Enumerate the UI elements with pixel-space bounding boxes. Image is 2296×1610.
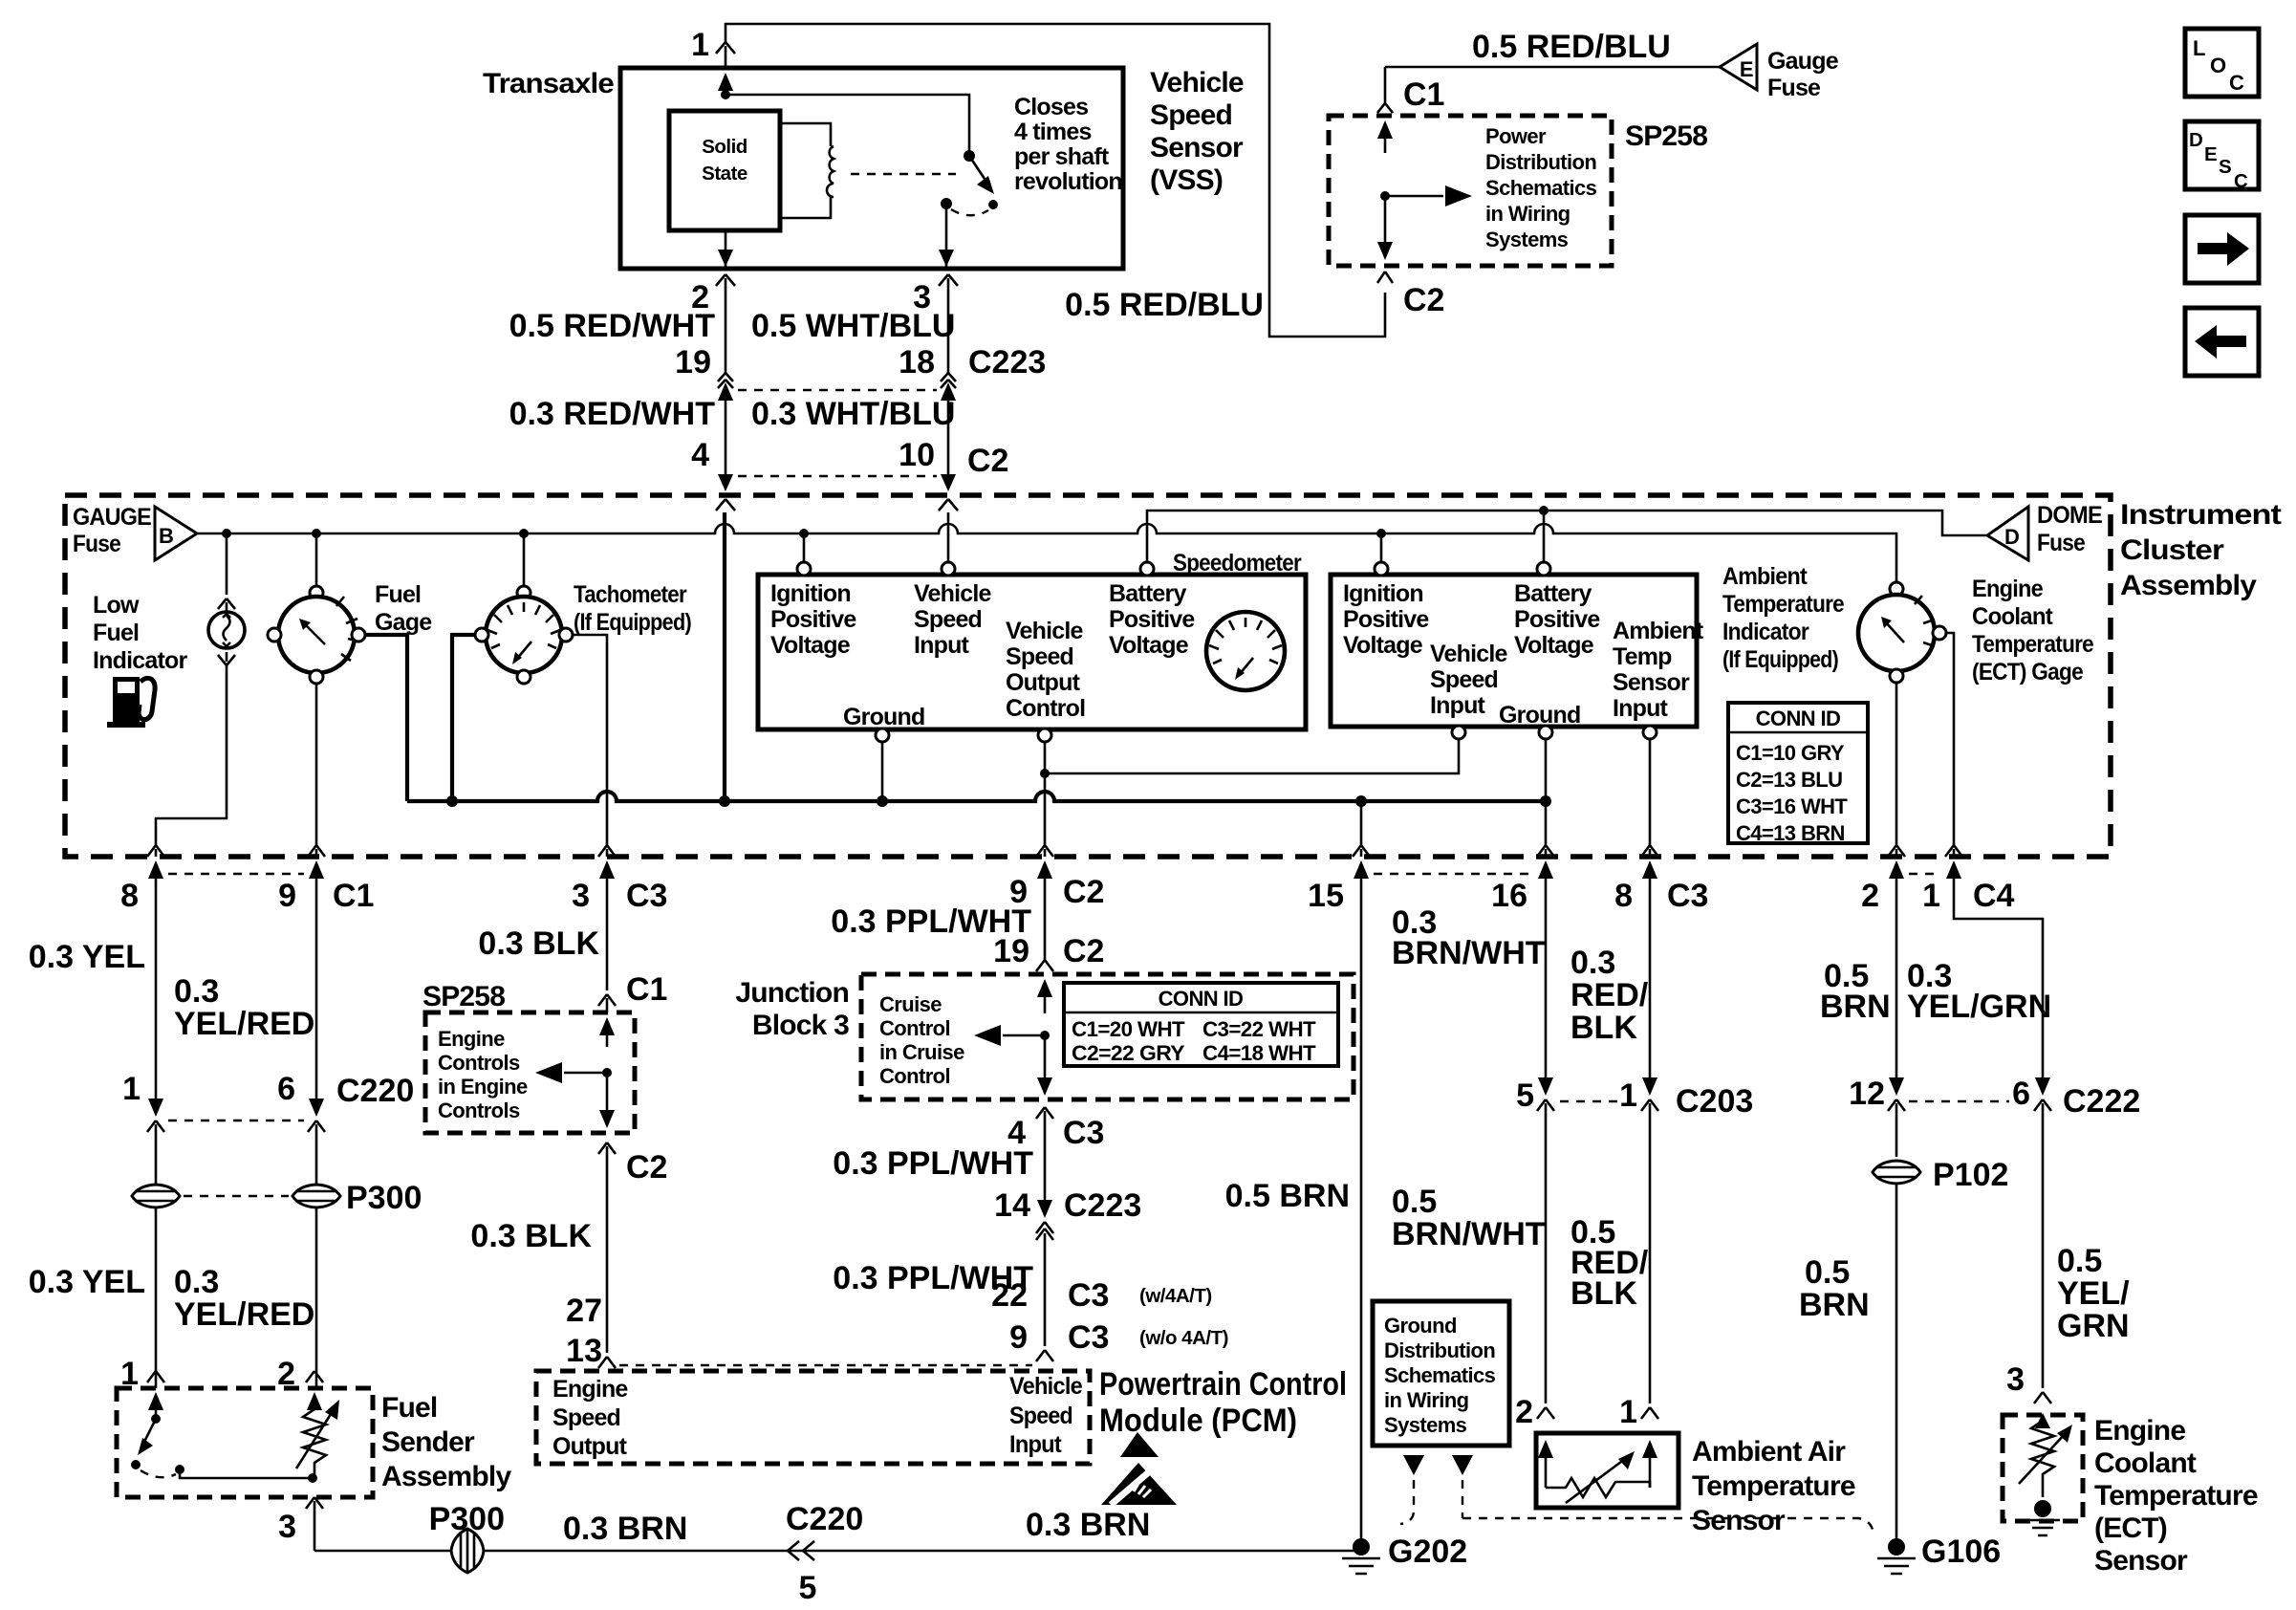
svg-text:1: 1 [1619, 1394, 1637, 1430]
svg-text:Fuse: Fuse [1767, 75, 1821, 101]
wire speedo ground [881, 742, 884, 799]
svg-text:BRN/WHT: BRN/WHT [1392, 935, 1546, 971]
svg-text:Distribution: Distribution [1485, 150, 1596, 174]
svg-text:Systems: Systems [1485, 228, 1569, 251]
svg-text:BRN: BRN [1820, 989, 1891, 1025]
svg-text:YEL/GRN: YEL/GRN [1907, 989, 2051, 1025]
dashed pair links below cluster [168, 873, 304, 875]
svg-text:0.3 YEL: 0.3 YEL [29, 939, 145, 975]
fuel gage left terminal [268, 628, 281, 642]
ECT gage [1858, 595, 1935, 671]
svg-text:Input: Input [1009, 1431, 1062, 1458]
wire jb3 down arrow [1044, 1035, 1047, 1080]
button arrow left [2185, 308, 2259, 376]
wire tach right to pin3 C3 [573, 635, 607, 845]
ground bus [407, 792, 1546, 801]
svg-text:D: D [2004, 525, 2019, 549]
svg-text:C1=20 WHT: C1=20 WHT [1072, 1017, 1185, 1041]
dome feed wire [1147, 511, 1987, 562]
wire up arrow inside [606, 1031, 609, 1047]
wire 0.3 BRN bottom run [314, 1550, 1361, 1553]
svg-text:GAUGE: GAUGE [73, 504, 151, 531]
connector chevrons below cluster edge [716, 499, 735, 511]
svg-text:1: 1 [122, 1071, 141, 1107]
svg-text:Indicator: Indicator [1722, 619, 1809, 645]
svg-text:3: 3 [278, 1509, 296, 1545]
svg-text:Fuse: Fuse [73, 531, 121, 557]
wire 0.3 WHT/BLU (C223 to C2) [947, 398, 950, 476]
svg-text:Sensor: Sensor [1692, 1505, 1786, 1536]
svg-text:State: State [702, 163, 747, 185]
wire pin3 inside box [945, 204, 948, 269]
svg-text:Indicator: Indicator [93, 647, 187, 674]
fuel gage top terminal [310, 586, 323, 599]
svg-text:C2: C2 [626, 1149, 667, 1186]
svg-text:Temperature: Temperature [1722, 591, 1845, 618]
svg-text:1: 1 [1619, 1077, 1637, 1114]
svg-text:(VSS): (VSS) [1150, 164, 1223, 196]
svg-text:C3: C3 [1063, 1115, 1104, 1151]
fuel sender entry chevrons [147, 1371, 323, 1382]
svg-text:GRN: GRN [2057, 1308, 2130, 1344]
svg-text:BLK: BLK [1570, 1275, 1637, 1312]
svg-text:G202: G202 [1388, 1534, 1467, 1570]
wire down arrow inside [606, 1073, 609, 1114]
svg-text:1: 1 [1922, 878, 1940, 914]
svg-text:Assembly: Assembly [2120, 570, 2257, 601]
svg-text:YEL/RED: YEL/RED [174, 1006, 314, 1042]
speedometer box [758, 575, 1306, 729]
svg-text:Systems: Systems [1384, 1413, 1467, 1437]
svg-text:Input: Input [1430, 692, 1486, 719]
svg-text:Battery: Battery [1109, 580, 1186, 607]
svg-text:in Cruise: in Cruise [879, 1040, 964, 1064]
wire speedo ign feed [803, 533, 806, 562]
svg-text:C4=18 WHT: C4=18 WHT [1202, 1041, 1316, 1065]
node box2 ground bus [1540, 795, 1551, 807]
svg-text:Vehicle: Vehicle [1430, 641, 1507, 667]
node speedo ign feed [799, 529, 809, 538]
svg-text:19: 19 [675, 344, 711, 381]
wire jb3 up arrow [1044, 994, 1047, 1013]
grommet P300 bottom [451, 1529, 484, 1573]
svg-text:Speed: Speed [1150, 99, 1232, 131]
wire 0.3 RED/WHT (C223 to C2) [725, 398, 727, 476]
conn id table (cluster) [1728, 703, 1868, 843]
svg-text:Vehicle: Vehicle [1150, 67, 1244, 98]
svg-text:C3=16 WHT: C3=16 WHT [1736, 794, 1848, 818]
svg-text:Speed: Speed [552, 1404, 620, 1431]
node SP258 [1380, 191, 1390, 201]
wire wht/blu into cluster to speedo VSI [947, 512, 950, 562]
ground G106 [1888, 1538, 1905, 1556]
svg-text:Output: Output [1006, 669, 1081, 696]
svg-text:(If Equipped): (If Equipped) [1722, 646, 1838, 673]
AAT resistor [1546, 1478, 1650, 1497]
svg-text:3: 3 [572, 878, 590, 914]
svg-text:Block 3: Block 3 [752, 1010, 849, 1041]
wire switch to resistor [180, 1469, 313, 1478]
node vso to box2 link [1040, 769, 1050, 778]
fuse symbol D (dome fuse) [1987, 507, 2028, 560]
node tach feed [519, 529, 529, 538]
svg-text:YEL/RED: YEL/RED [174, 1296, 314, 1333]
ambient air temperature sensor box [1536, 1433, 1679, 1508]
ECT gage right terminal [1933, 626, 1946, 640]
solid state box [669, 111, 780, 230]
wire gauge bus [197, 524, 1896, 582]
svg-text:Solid: Solid [702, 136, 747, 158]
arrow to cruise control [1003, 1034, 1045, 1037]
svg-text:revolution: revolution [1014, 168, 1122, 195]
svg-text:P300: P300 [429, 1501, 505, 1537]
svg-text:C4: C4 [1973, 878, 2015, 914]
svg-text:Voltage: Voltage [770, 632, 851, 659]
svg-text:in Engine: in Engine [438, 1075, 528, 1099]
svg-text:Distribution: Distribution [1384, 1338, 1495, 1362]
svg-text:C3: C3 [626, 878, 667, 914]
svg-text:0.5 RED/BLU: 0.5 RED/BLU [1472, 29, 1671, 65]
svg-text:Sensor: Sensor [2094, 1545, 2188, 1577]
svg-text:Power: Power [1485, 124, 1547, 148]
connector into PCM vsi [1036, 1350, 1053, 1361]
svg-text:C203: C203 [1676, 1083, 1753, 1120]
svg-text:Cluster: Cluster [2120, 534, 2224, 566]
ECT sensor dashed box [2003, 1415, 2083, 1521]
wire box2 atsi down [1649, 739, 1652, 845]
svg-text:Fuel: Fuel [375, 581, 421, 608]
svg-text:Vehicle: Vehicle [914, 580, 991, 607]
svg-text:C2=13 BLU: C2=13 BLU [1736, 768, 1842, 792]
svg-text:0.3 BLK: 0.3 BLK [470, 1218, 592, 1254]
svg-text:6: 6 [2012, 1076, 2030, 1112]
speedo terminal vso control [1038, 729, 1051, 742]
svg-text:0.3: 0.3 [174, 973, 219, 1010]
svg-text:Vehicle: Vehicle [1009, 1373, 1083, 1400]
ECT sensor ground [2034, 1500, 2051, 1517]
wire pin2 to G106 [1895, 1184, 1898, 1541]
wire pin15 to ground bus [1360, 801, 1363, 845]
tachometer [486, 597, 562, 673]
switch blade [143, 1419, 156, 1444]
fuel gage bottom terminal [310, 670, 323, 684]
svg-text:in Wiring: in Wiring [1384, 1388, 1469, 1412]
svg-text:C2: C2 [967, 443, 1008, 479]
fuel sender assembly box [117, 1388, 373, 1497]
svg-text:Output: Output [552, 1433, 628, 1460]
svg-text:15: 15 [1308, 878, 1344, 914]
svg-text:C3: C3 [1068, 1277, 1109, 1314]
svg-text:14: 14 [994, 1187, 1030, 1224]
svg-text:Engine: Engine [438, 1027, 505, 1051]
wire pin16 column [1545, 889, 1548, 1080]
svg-text:Speed: Speed [1430, 666, 1498, 693]
svg-text:L: L [2193, 36, 2205, 60]
SP258 engine controls dashed box [425, 1012, 635, 1133]
dashed pair link C223 [738, 389, 937, 391]
svg-text:Voltage: Voltage [1514, 632, 1594, 659]
svg-text:Ground: Ground [1499, 702, 1580, 729]
svg-text:5: 5 [799, 1570, 817, 1606]
dashed link P300 pair [184, 1195, 289, 1197]
svg-text:Module (PCM): Module (PCM) [1099, 1403, 1297, 1439]
svg-text:Temperature: Temperature [1972, 631, 2094, 658]
ESD symbol [1101, 1432, 1177, 1505]
connector into PCM engine speed output [598, 1357, 616, 1368]
svg-text:0.5 RED/BLU: 0.5 RED/BLU [1065, 287, 1264, 323]
svg-text:Ground: Ground [843, 704, 924, 730]
svg-text:per shaft: per shaft [1014, 143, 1110, 170]
svg-text:9: 9 [278, 878, 296, 914]
svg-text:Controls: Controls [438, 1051, 520, 1075]
svg-text:(ECT) Gage: (ECT) Gage [1972, 659, 2084, 685]
node VSS wire on ground bus [719, 795, 730, 807]
tach top terminal [517, 586, 531, 599]
instrument cluster assembly dashed box [65, 495, 2111, 857]
svg-text:C2: C2 [1063, 874, 1104, 910]
svg-text:Temperature: Temperature [2094, 1480, 2258, 1512]
svg-text:0.5: 0.5 [1805, 1254, 1850, 1291]
wire box2 ground down [1545, 739, 1548, 845]
svg-text:Sensor: Sensor [1613, 669, 1690, 696]
svg-text:0.3 YEL: 0.3 YEL [29, 1264, 145, 1300]
wire lamp to pin8 [156, 669, 227, 845]
ECT gage bottom terminal [1890, 669, 1903, 683]
svg-text:S: S [2219, 156, 2231, 178]
svg-text:0.3 WHT/BLU: 0.3 WHT/BLU [751, 396, 955, 432]
svg-text:(w/4A/T): (w/4A/T) [1139, 1285, 1212, 1307]
svg-text:in Wiring: in Wiring [1485, 202, 1570, 226]
connector Y pin1 [716, 42, 735, 68]
svg-text:4 times: 4 times [1014, 119, 1092, 145]
svg-text:Temperature: Temperature [1692, 1470, 1855, 1502]
connector C223 left halves [718, 373, 733, 388]
connector C3 below jb3 [1036, 1107, 1053, 1205]
svg-text:Assembly: Assembly [381, 1461, 511, 1492]
svg-text:E: E [1740, 57, 1753, 81]
svg-text:E: E [2204, 143, 2217, 165]
svg-text:2: 2 [1515, 1394, 1533, 1430]
svg-text:Engine: Engine [2094, 1415, 2185, 1447]
svg-text:Temp: Temp [1613, 643, 1672, 670]
svg-text:(If Equipped): (If Equipped) [574, 609, 691, 636]
svg-text:0.5 BRN: 0.5 BRN [1225, 1178, 1350, 1214]
box2 terminal ambient temp sensor input [1643, 726, 1657, 739]
svg-text:O: O [2210, 54, 2226, 77]
dashed boundary to sensors [1462, 1518, 1874, 1534]
tach bottom terminal [517, 670, 531, 684]
svg-text:Battery: Battery [1514, 580, 1592, 607]
wire pin9 column lower [315, 1207, 318, 1388]
svg-text:8: 8 [1614, 878, 1633, 914]
tach right terminal [559, 628, 573, 642]
svg-text:Vehicle: Vehicle [1006, 618, 1083, 644]
svg-text:0.3: 0.3 [1570, 945, 1615, 981]
wire junction to switch [726, 95, 969, 151]
switch contact dot [131, 1460, 141, 1469]
ground G202 [1353, 1538, 1370, 1556]
svg-text:C3: C3 [1667, 878, 1708, 914]
wire ECT right to pin1 C4 [1946, 633, 1954, 845]
ECT gage top terminal [1890, 582, 1903, 596]
grommet P300 left [132, 1185, 180, 1207]
dashed actuation link [851, 173, 956, 175]
svg-text:0.5 WHT/BLU: 0.5 WHT/BLU [751, 308, 955, 344]
svg-text:Positive: Positive [770, 606, 856, 633]
svg-text:Input: Input [914, 632, 970, 659]
button LOC [2185, 29, 2259, 97]
svg-text:Tachometer: Tachometer [574, 581, 687, 608]
ECT sensor resistor [2031, 1415, 2054, 1497]
switch blade arrow [969, 156, 986, 182]
node speedo ground [877, 795, 888, 807]
svg-text:C223: C223 [968, 344, 1046, 381]
transaxle box (VSS) [620, 68, 1123, 269]
box2 terminal ground [1539, 726, 1552, 739]
svg-text:BRN: BRN [1799, 1287, 1870, 1323]
grommet P300 right [292, 1185, 340, 1207]
svg-text:B: B [159, 524, 173, 548]
svg-text:G106: G106 [1921, 1534, 2001, 1570]
ECT sensor wiper arrow [2019, 1434, 2065, 1484]
node resistor bottom [308, 1473, 317, 1483]
coil bracket [780, 123, 831, 218]
connector C223 right halves [941, 373, 956, 388]
wire pin2 column (0.5 BRN) [1895, 889, 1898, 1078]
svg-text:0.3 BRN: 0.3 BRN [1026, 1507, 1150, 1543]
sender resistor wiper arrow [296, 1411, 333, 1469]
svg-text:C: C [2229, 71, 2244, 95]
AAT wiper arrow [1566, 1459, 1625, 1503]
speedo terminal ignition positive voltage [797, 562, 811, 576]
svg-text:Schematics: Schematics [1384, 1363, 1496, 1387]
fuel gage [278, 597, 355, 673]
svg-text:C3: C3 [1068, 1319, 1109, 1356]
wire tach left to ground bus [452, 635, 475, 801]
svg-text:C2=22 GRY: C2=22 GRY [1072, 1041, 1185, 1065]
fuse symbol B (gauge fuse feed) [155, 507, 197, 560]
wire C1 to gauge fuse [1385, 66, 1720, 69]
svg-text:Voltage: Voltage [1109, 632, 1189, 659]
junction block 3 dashed box [861, 974, 1354, 1099]
svg-text:Speed: Speed [1006, 643, 1073, 670]
svg-text:Fuel: Fuel [381, 1392, 437, 1424]
connector Y at JB3 [1036, 960, 1053, 971]
node low fuel branch [222, 529, 231, 538]
node dome to box2 bpv [1539, 506, 1549, 515]
sender resistor [303, 1405, 326, 1478]
connector C1 engine harness [598, 994, 616, 1012]
node fuel gage feed [312, 529, 321, 538]
svg-text:BRN/WHT: BRN/WHT [1392, 1216, 1546, 1252]
speedo terminal vehicle speed input [942, 562, 955, 576]
SP258 wire C1 connector [1377, 67, 1393, 113]
svg-text:Ignition: Ignition [770, 580, 851, 607]
svg-text:(ECT): (ECT) [2094, 1512, 2167, 1544]
svg-text:D: D [2189, 129, 2202, 151]
svg-text:Ignition: Ignition [1343, 580, 1423, 607]
grommet P102 [1873, 1161, 1920, 1184]
wire inside SP258 up arrow [1384, 134, 1387, 153]
svg-text:Speed: Speed [914, 606, 982, 633]
svg-text:Speedometer: Speedometer [1173, 550, 1302, 577]
dashed pair link C2 [738, 475, 937, 477]
svg-text:Controls: Controls [438, 1099, 520, 1122]
svg-text:4: 4 [691, 437, 709, 473]
svg-text:Engine: Engine [1972, 576, 2044, 602]
svg-text:22: 22 [991, 1277, 1028, 1314]
svg-text:Fuel: Fuel [93, 620, 139, 646]
svg-text:DOME: DOME [2037, 502, 2102, 529]
wire solid-state output up arrow [725, 89, 727, 95]
gdist arrows down [1403, 1455, 1424, 1475]
coil [827, 146, 834, 197]
svg-text:CONN ID: CONN ID [1756, 707, 1841, 730]
svg-text:C220: C220 [336, 1073, 414, 1109]
fuse symbol E (Gauge Fuse) [1720, 44, 1757, 90]
connector chevron above lamp [218, 598, 235, 612]
svg-text:Engine: Engine [552, 1376, 628, 1403]
svg-text:10: 10 [899, 437, 935, 473]
svg-text:Junction: Junction [735, 977, 849, 1009]
svg-text:1: 1 [691, 27, 709, 63]
svg-text:SP258: SP258 [1625, 120, 1707, 152]
node jb3 [1040, 1031, 1050, 1040]
svg-text:Control: Control [879, 1016, 950, 1040]
svg-text:Instrument: Instrument [2120, 499, 2282, 531]
wire pin8 column [155, 889, 158, 1104]
connector C2 below SP258 [1377, 272, 1393, 283]
svg-text:Ground: Ground [1384, 1314, 1457, 1338]
connector chevron below lamp [218, 652, 235, 669]
svg-text:0.5: 0.5 [1392, 1184, 1437, 1220]
switch output dot [175, 1465, 184, 1474]
speedo gauge [1206, 612, 1285, 690]
svg-text:C222: C222 [2063, 1083, 2140, 1120]
svg-text:C2: C2 [1403, 282, 1444, 318]
svg-text:C3=22 WHT: C3=22 WHT [1202, 1017, 1316, 1041]
wire fuel gage feed [315, 533, 318, 586]
svg-text:6: 6 [277, 1071, 295, 1107]
svg-text:C: C [2234, 170, 2248, 192]
speedo terminal ground [876, 729, 889, 742]
svg-text:RED/: RED/ [1570, 977, 1649, 1013]
svg-text:Control: Control [879, 1064, 950, 1088]
svg-text:Positive: Positive [1343, 606, 1429, 633]
svg-text:C1: C1 [1403, 76, 1444, 113]
wire vso to box2 vsi [1045, 739, 1459, 773]
svg-text:C4=13 BRN: C4=13 BRN [1736, 821, 1845, 845]
connector pin3 below sender [306, 1497, 323, 1551]
ground distribution box [1373, 1301, 1509, 1446]
wire box2 ign feed [1380, 533, 1383, 562]
svg-text:Fuse: Fuse [2037, 530, 2086, 556]
PCM dashed box [536, 1371, 1090, 1464]
svg-text:Closes: Closes [1014, 94, 1088, 120]
wire pin3 below box [939, 274, 958, 373]
svg-text:C223: C223 [1064, 1187, 1141, 1224]
edge chevrons at cluster bottom [147, 845, 1962, 857]
svg-text:Input: Input [1613, 695, 1669, 722]
svg-text:C1: C1 [333, 878, 374, 914]
wire pin9 column [315, 889, 318, 1104]
tach left terminal [475, 628, 488, 642]
node tach-left ground [446, 795, 458, 807]
box2 terminal battery positive voltage [1537, 562, 1550, 576]
svg-text:Positive: Positive [1514, 606, 1600, 633]
svg-text:Cruise: Cruise [879, 992, 942, 1016]
node junction above solid state [721, 90, 730, 99]
